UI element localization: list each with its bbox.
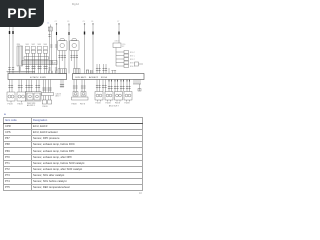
pin loops on bar2 top	[86, 70, 92, 74]
faint page title	[72, 3, 79, 6]
svg-text:X61: X61	[26, 44, 29, 46]
svg-text:P44 B: P44 B	[125, 103, 131, 105]
svg-text:C6: C6	[91, 21, 93, 23]
cap W7	[68, 24, 70, 26]
ticks B2 pins	[70, 56, 78, 58]
svg-text:C410 B: C410 B	[56, 93, 61, 95]
K6 band	[72, 97, 89, 100]
svg-text:P60 B: P60 B	[43, 106, 49, 108]
ECU bar1	[8, 74, 67, 80]
wire W3 tall	[84, 24, 86, 74]
connector stack X1	[25, 47, 29, 54]
connector stack X4	[43, 47, 47, 54]
wire W1	[9, 27, 11, 74]
svg-text:X45 B: X45 B	[115, 41, 121, 43]
svg-text:B1 S6: B1 S6	[101, 77, 108, 79]
component box K9	[115, 92, 123, 102]
component box K10	[124, 92, 132, 102]
tick W5	[118, 23, 120, 25]
connector ticks W1 W2 above bar	[8, 68, 14, 70]
bar1 output ticks	[8, 85, 64, 91]
ticks R1 lead	[19, 68, 21, 70]
branch b3	[116, 58, 129, 61]
svg-text:C7: C7	[117, 21, 119, 23]
tick W7	[68, 32, 70, 35]
comb connector right	[133, 80, 141, 92]
svg-text:P42 B: P42 B	[106, 103, 112, 105]
svg-text:C44: C44	[53, 63, 56, 65]
connector stack X3	[37, 47, 41, 54]
wires entering bar2 top	[97, 64, 109, 74]
wire W6	[56, 24, 58, 74]
svg-text:B94 C: B94 C	[130, 66, 136, 68]
connector J1 pair	[48, 25, 52, 74]
duct wire ticks	[25, 67, 47, 69]
ticks J1 wires	[48, 35, 52, 71]
pin loops above bar1 right	[49, 71, 56, 74]
component box K3	[26, 92, 42, 102]
item table	[3, 117, 143, 191]
svg-text:X63: X63	[38, 44, 41, 46]
sensor B2	[70, 39, 80, 69]
svg-text:P41 B: P41 B	[96, 103, 102, 105]
sensor B1	[58, 39, 68, 74]
svg-text:B93 C: B93 C	[130, 63, 136, 65]
ticks B1 pins	[58, 56, 66, 58]
PDF badge	[0, 0, 44, 27]
component box K7	[95, 92, 103, 102]
component box K6b	[81, 92, 86, 97]
svg-text:C2: C2	[55, 21, 57, 23]
labels under right boxes	[96, 103, 131, 108]
bar2 output ticks	[96, 86, 131, 89]
branch b1	[116, 51, 129, 54]
svg-text:B91 C: B91 C	[130, 56, 136, 58]
ticks W6 lower	[55, 45, 57, 70]
wire W2	[12, 27, 14, 74]
svg-text:ECU EEC1: ECU EEC1	[76, 77, 88, 79]
svg-text:P40 B: P40 B	[18, 104, 24, 106]
wiring diagram svg	[0, 0, 149, 114]
svg-text:AN DPF 2: AN DPF 2	[27, 104, 35, 107]
connector far right top	[135, 62, 144, 66]
svg-text:R30: R30	[17, 44, 20, 46]
svg-text:X64: X64	[44, 44, 47, 46]
branch b2	[116, 54, 129, 57]
branch b5	[116, 65, 129, 68]
svg-text:4C MCU: 4C MCU	[30, 77, 39, 79]
svg-text:P47 B: P47 B	[80, 104, 86, 106]
branch b4	[116, 61, 129, 64]
labels under left boxes	[8, 103, 86, 108]
shield band K4	[42, 93, 54, 105]
ticks W3 W4	[85, 23, 94, 25]
terminal ticks W1 W2	[10, 31, 14, 34]
box K6 feed wires	[74, 80, 85, 92]
K4 tag text	[56, 93, 61, 97]
svg-text:X2: X2	[122, 46, 124, 48]
svg-text:AN 2 SCR T: AN 2 SCR T	[109, 105, 120, 108]
junction box JB1	[113, 43, 121, 66]
pin strip above bar1	[7, 71, 36, 73]
svg-text:C5: C5	[83, 21, 85, 23]
harness band B	[22, 61, 52, 65]
tick W6	[56, 32, 58, 35]
page number	[139, 192, 142, 195]
component box K2	[17, 92, 26, 103]
pin stubs under bar2	[109, 80, 130, 82]
svg-text:X62: X62	[32, 44, 35, 46]
tiny top labels	[47, 21, 136, 68]
svg-text:B90 C: B90 C	[130, 52, 136, 54]
connector block on bar2 top	[74, 69, 81, 74]
svg-text:B 48V: B 48V	[40, 77, 46, 79]
ticks K6 feed	[73, 86, 86, 88]
svg-text:C1: C1	[47, 23, 49, 25]
component box K1	[7, 92, 15, 103]
duct output wires	[27, 53, 47, 73]
stack labels	[17, 44, 47, 46]
footnote link a	[4, 112, 6, 116]
pins into bar2 near junction	[113, 71, 116, 74]
connector stack X2	[31, 47, 35, 54]
svg-text:P43 B: P43 B	[115, 103, 121, 105]
ECU bar2	[73, 74, 145, 80]
duct tag	[52, 61, 57, 65]
svg-text:C3: C3	[67, 21, 69, 23]
component box K6a	[73, 92, 78, 97]
resistor R1 glow plug element	[17, 46, 23, 74]
svg-text:P46 B: P46 B	[72, 104, 78, 106]
harness duct	[24, 57, 49, 60]
wire W5 tall right	[118, 24, 120, 43]
ticks bar2 inputs	[96, 69, 107, 71]
connector block on bar1 top right	[58, 69, 67, 74]
svg-text:B92 C: B92 C	[130, 59, 136, 61]
cap W6	[56, 23, 58, 25]
bar1 output wires	[10, 80, 64, 93]
component box K8	[105, 92, 113, 102]
wire W7	[68, 25, 70, 74]
wire W4 tall	[92, 24, 94, 74]
svg-text:A2 EEC2: A2 EEC2	[89, 76, 99, 79]
bar2 output wires	[97, 80, 130, 92]
svg-text:P10 B: P10 B	[8, 104, 14, 106]
